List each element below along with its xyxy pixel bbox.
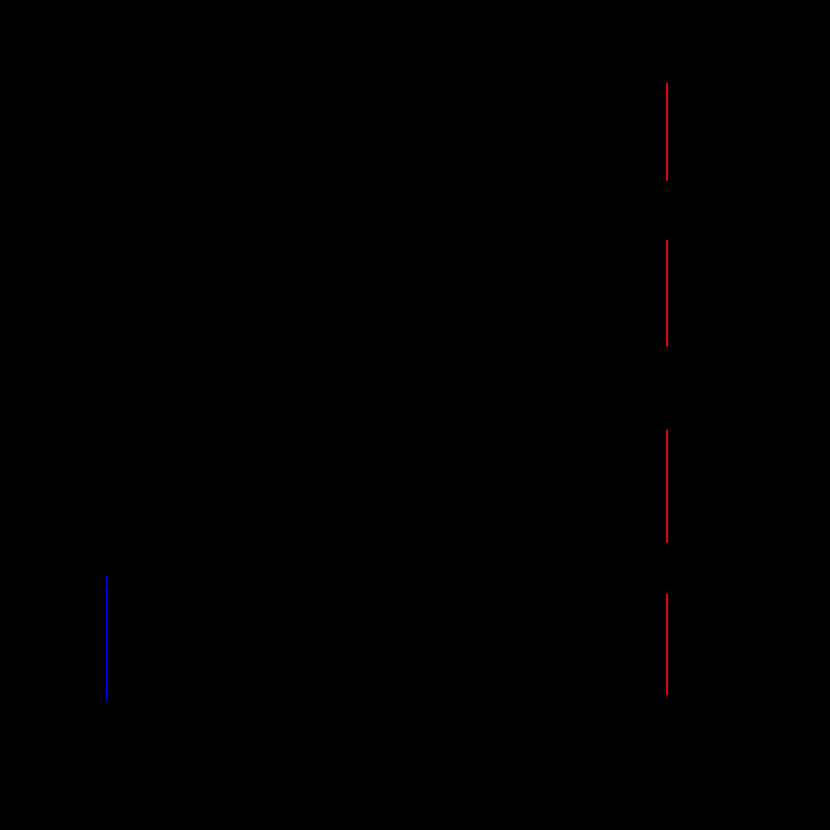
wire W3 (red right-branch wire, component 2 to component 3) (666, 430, 668, 543)
junction (black lead overlapping blue wire W5, dims it) (105, 583, 108, 587)
wire W5 (blue left-branch wire) (106, 576, 108, 701)
wire W2 (red right-branch wire, component 1 to component 2) (666, 240, 668, 347)
wire W4 (red right-branch wire, component 3 to bottom node) (666, 594, 668, 696)
wire W1 (red right-branch wire, top node to component 1) (666, 83, 668, 181)
